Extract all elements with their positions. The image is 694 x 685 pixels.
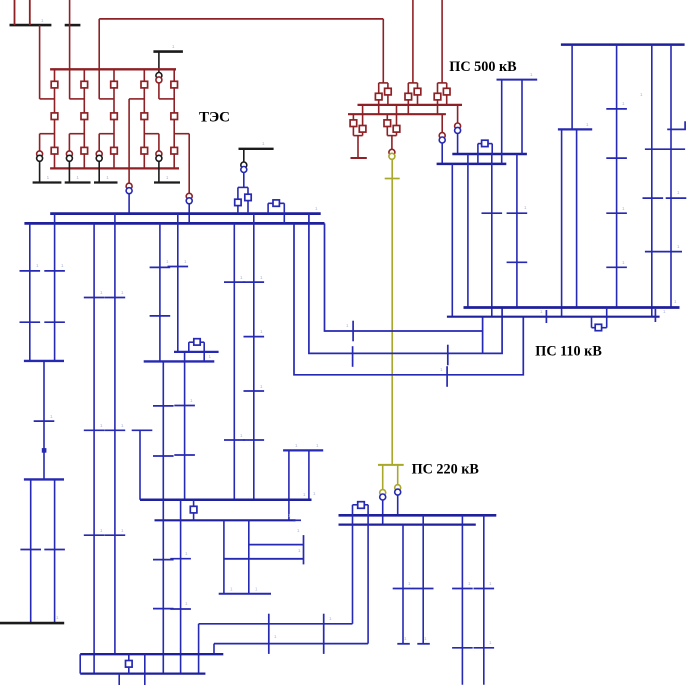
- svg-text:1: 1: [41, 18, 44, 23]
- wire TES chain 3: [113, 69, 115, 168]
- svg-text:1: 1: [100, 290, 103, 295]
- square link Ha-Hb: [193, 500, 195, 521]
- bypass bus1 left leg: [267, 203, 269, 213]
- breaker bypass 500: [482, 140, 488, 146]
- svg-text:1: 1: [76, 175, 79, 180]
- svg-text:1: 1: [260, 329, 263, 334]
- generator bar (black): [154, 181, 180, 183]
- breaker Q1: [51, 81, 58, 88]
- wire line 110 #3: [491, 154, 493, 317]
- wire feeder A2: [54, 214, 56, 361]
- wire Ha corner up: [139, 430, 141, 500]
- transformer T110-2: [186, 193, 192, 204]
- wire 110 col1a: [561, 129, 563, 316]
- wire A middle: [43, 361, 45, 480]
- bypass leg left (busB): [477, 144, 479, 164]
- tick on H2: [545, 310, 547, 323]
- svg-text:1: 1: [255, 587, 258, 592]
- breaker tie right: [245, 194, 251, 200]
- wire elbow upper: [99, 98, 114, 100]
- line terminal bar (red): [351, 157, 367, 159]
- 110kV bus1 (blue): [50, 212, 321, 215]
- bus H_d (blue): [249, 544, 304, 546]
- wire right branch: [387, 83, 389, 105]
- svg-text:1: 1: [586, 122, 589, 127]
- wire tie bar down (black): [243, 149, 245, 162]
- wire feeder C1: [93, 223, 95, 673]
- bypass top bar: [478, 143, 492, 145]
- svg-text:1: 1: [288, 513, 291, 518]
- terminal bar 220 f2: [417, 643, 430, 645]
- wire stub down 2: [521, 80, 523, 154]
- wire transformer to gen bar: [39, 162, 41, 183]
- svg-text:1: 1: [185, 551, 188, 556]
- tick crossing H_h+H_g 2: [323, 614, 325, 654]
- tick A2-1: [44, 270, 65, 272]
- svg-text:1: 1: [674, 299, 677, 304]
- bus H_a (blue): [140, 499, 312, 502]
- tick 220 f1: [393, 588, 414, 590]
- tick E2-2: [174, 454, 195, 456]
- bypass H right leg: [606, 308, 608, 328]
- wire E1 down: [162, 361, 164, 499]
- breaker 500kV low right: [393, 126, 400, 133]
- generator bar (black): [33, 181, 62, 183]
- wire T500/110b to bus (blue): [441, 143, 443, 164]
- wire from G1 bar down: [39, 25, 41, 99]
- svg-text:1: 1: [100, 528, 103, 533]
- wire olive stub right: [397, 465, 399, 485]
- svg-text:1: 1: [121, 290, 124, 295]
- wire TES chain 4: [143, 69, 145, 168]
- svg-text:1: 1: [47, 175, 50, 180]
- transformer (unit): [156, 151, 162, 161]
- wire feeder C2: [114, 214, 116, 655]
- svg-text:1: 1: [524, 205, 527, 210]
- svg-text:1: 1: [190, 398, 193, 403]
- PS220 olive bar: [378, 464, 404, 466]
- transformer T220/110 a: [380, 490, 386, 500]
- breaker Ha-Hb: [190, 506, 197, 513]
- breaker 500kV low left: [350, 120, 357, 127]
- tick col3-1 long: [645, 148, 685, 150]
- svg-text:1: 1: [640, 92, 643, 97]
- svg-text:1: 1: [540, 309, 543, 314]
- wire H_g to H_e: [213, 644, 215, 655]
- wire 110 col3: [651, 45, 653, 317]
- tick on L1 wire: [352, 321, 354, 342]
- tick E2-1: [174, 405, 195, 407]
- wire T500/220 to PS220 (olive): [391, 160, 393, 465]
- tick C2-3: [105, 534, 126, 536]
- svg-text:1: 1: [61, 263, 64, 268]
- svg-text:1: 1: [424, 636, 427, 641]
- generator bar (black): [94, 181, 118, 183]
- terminal bar bottom-left (black): [0, 622, 64, 625]
- island bar (blue): [283, 449, 323, 451]
- breaker Q13: [171, 81, 178, 88]
- wire line 110 #2: [467, 154, 469, 308]
- tick G2-1: [170, 558, 191, 560]
- 110 sub-bus (blue): [558, 128, 592, 130]
- breaker Q8: [111, 113, 118, 120]
- wire T110-1 to bus1 (blue): [128, 194, 130, 214]
- transformer T110-1: [126, 183, 132, 194]
- tick F2-1: [244, 281, 265, 283]
- wire stub down 1: [501, 80, 503, 164]
- wire 500kV drop from TES line: [382, 19, 384, 83]
- wire 220 f4: [483, 515, 485, 685]
- breaker Q7: [111, 81, 118, 88]
- wire to gen transformer: [98, 134, 100, 151]
- bypass220 bar: [353, 504, 369, 506]
- svg-text:1: 1: [50, 414, 53, 419]
- wire chain5 to T110-2 (red): [188, 134, 190, 194]
- svg-text:1: 1: [274, 634, 277, 639]
- svg-text:1: 1: [303, 492, 306, 497]
- svg-text:1: 1: [262, 141, 265, 146]
- breaker Q11: [141, 113, 148, 120]
- wire B right down: [54, 479, 56, 623]
- generator bar G1 (black): [10, 24, 52, 27]
- generator bar (black): [65, 181, 91, 183]
- breaker bypass H: [595, 324, 601, 330]
- wire elbow lower chain4: [144, 133, 159, 135]
- bypass B1 left leg: [188, 342, 190, 352]
- tick crossing Hd+Hc: [303, 535, 305, 564]
- PS500 upper bus (red): [358, 104, 463, 106]
- tick col2-1: [606, 108, 627, 110]
- breaker Q2: [51, 113, 58, 120]
- svg-text:1: 1: [530, 72, 533, 77]
- wire H_h down to H_f: [198, 624, 200, 674]
- wire split bar: [379, 82, 388, 84]
- wire 220 f2: [422, 515, 424, 644]
- svg-text:1: 1: [329, 616, 332, 621]
- tick E1-2: [153, 455, 174, 457]
- wire island leg1: [288, 450, 290, 520]
- wire elbow lower chain5: [174, 133, 189, 135]
- wire transformer to gen bar: [98, 162, 100, 183]
- svg-text:1: 1: [489, 581, 492, 586]
- 110kV bus2 (blue): [24, 222, 324, 225]
- breaker He-Hf: [126, 661, 133, 668]
- wire left branch: [378, 83, 380, 114]
- transformer T5 (gen side): [156, 73, 162, 83]
- bypass leg right (busA): [491, 144, 493, 154]
- wire TES to PS500 horizontal: [99, 18, 383, 20]
- svg-text:1: 1: [295, 443, 298, 448]
- wire F2 down: [253, 214, 255, 500]
- breaker 500kV right: [414, 88, 421, 95]
- wire elbow upper: [129, 98, 144, 100]
- breaker 500kV left: [375, 93, 382, 100]
- wire 110 col4: [670, 45, 672, 308]
- tick col4-2: [666, 197, 687, 199]
- wire feeder up from G1 bar: [14, 0, 16, 25]
- wire B left down: [30, 479, 32, 623]
- junction bar B (blue): [24, 478, 64, 480]
- wire elbow lower: [69, 133, 84, 135]
- breaker Q15: [171, 147, 178, 154]
- tick col2-2: [606, 157, 627, 159]
- tick A mid: [34, 420, 55, 422]
- wire transformer to gen bar: [158, 162, 160, 183]
- svg-text:1: 1: [297, 528, 300, 533]
- wire line 110 #4: [516, 154, 518, 308]
- tie left leg: [237, 187, 239, 213]
- svg-text:1: 1: [209, 354, 212, 359]
- breaker 500kV left: [434, 93, 441, 100]
- tie bar (black): [239, 148, 274, 150]
- svg-text:1: 1: [240, 433, 243, 438]
- tick 220 f4a: [474, 588, 495, 590]
- svg-text:1: 1: [298, 548, 301, 553]
- wire E2 down: [184, 352, 186, 500]
- PS500 110kV bus B (blue): [437, 163, 507, 166]
- 110 loop bus H2 (blue): [447, 316, 660, 318]
- breaker 500kV low left: [384, 120, 391, 127]
- tick col3-3 long: [645, 251, 682, 253]
- wire to gen transformer: [158, 134, 160, 151]
- tick D2-1: [168, 266, 189, 268]
- tick col3-2: [643, 197, 664, 199]
- wire 500kV feeder 2: [441, 0, 443, 83]
- wire join bar low: [353, 135, 362, 137]
- tick D1-1: [150, 266, 171, 268]
- wire col4 elbow tick: [667, 121, 685, 129]
- svg-text:ПС 110 кВ: ПС 110 кВ: [535, 344, 602, 360]
- svg-text:ТЭС: ТЭС: [199, 110, 230, 126]
- svg-text:1: 1: [440, 367, 443, 372]
- wire TES chain 2: [83, 69, 85, 168]
- svg-text:1: 1: [315, 206, 318, 211]
- wire G3 bar to transformer: [158, 52, 160, 73]
- svg-text:ПС 500 кВ: ПС 500 кВ: [449, 59, 517, 75]
- 110 loop bus H1 (blue): [464, 306, 680, 309]
- transformer (unit): [96, 151, 102, 161]
- tick L2 a: [352, 346, 354, 367]
- wire to T220 (red): [391, 136, 393, 150]
- tick L3 a: [446, 366, 448, 387]
- tick col2-3: [606, 212, 627, 214]
- tick 220 f4b: [474, 647, 495, 649]
- wire 110 col1: [571, 45, 573, 130]
- terminal bar Hc (blue): [219, 593, 271, 595]
- tick 220 f3a: [452, 588, 473, 590]
- transformer T500/110a: [455, 123, 461, 133]
- tick A1-1: [20, 270, 41, 272]
- breaker Q14: [171, 113, 178, 120]
- tick F2-3: [244, 390, 265, 392]
- junction bar A (blue): [24, 360, 64, 362]
- terminal bar 220 f1: [397, 643, 410, 645]
- bypass220 left leg: [352, 505, 354, 624]
- tick col2-4: [606, 266, 627, 268]
- stub bus (blue): [497, 79, 538, 81]
- tick C1-2: [84, 429, 105, 431]
- transformer (unit): [66, 151, 72, 161]
- tick F1-1: [224, 281, 245, 283]
- breaker Q9: [111, 147, 118, 154]
- tie split bar: [238, 186, 248, 188]
- tick C1-1: [84, 297, 105, 299]
- wire Hb down right: [248, 520, 250, 593]
- sub bus B2 (blue): [144, 360, 215, 362]
- wire He-Hf left link: [79, 654, 81, 673]
- tick line4 b: [507, 261, 528, 263]
- wire 220 f3: [461, 515, 463, 685]
- bypass B1 right leg: [203, 342, 205, 361]
- tick G1-2: [153, 608, 174, 610]
- wire left branch low: [352, 114, 354, 135]
- tick A1-2: [20, 321, 41, 323]
- wire 500kV feeder 1: [412, 0, 414, 83]
- svg-text:1: 1: [408, 581, 411, 586]
- transformer (unit): [37, 151, 43, 161]
- tick D1-2: [150, 315, 171, 317]
- tick C2-1: [105, 297, 126, 299]
- tick E1-1: [153, 405, 174, 407]
- tick L2 b: [447, 345, 449, 366]
- tick 220 f3b: [452, 647, 473, 649]
- transformer T220/110 b: [395, 485, 401, 495]
- breaker bypass B1: [194, 339, 200, 345]
- wire 220 f1: [402, 525, 404, 644]
- breaker Q12: [141, 147, 148, 154]
- svg-text:ПС 220 кВ: ПС 220 кВ: [412, 461, 480, 477]
- tick on H2 end: [654, 309, 656, 322]
- wire join bar low: [387, 135, 396, 137]
- svg-text:1: 1: [677, 190, 680, 195]
- square link He-Hf: [128, 654, 130, 673]
- wire upper bus to T500/110a: [457, 105, 459, 123]
- breaker Q5: [81, 113, 88, 120]
- wire island leg2: [308, 450, 310, 499]
- breaker bypass bus1: [273, 200, 279, 206]
- svg-text:1: 1: [240, 275, 243, 280]
- bypass220 right leg: [367, 505, 369, 644]
- svg-text:1: 1: [260, 384, 263, 389]
- bus H_e (blue): [80, 653, 223, 655]
- svg-text:1: 1: [468, 581, 471, 586]
- wire T500/110a to bus (blue): [457, 134, 459, 154]
- wire TES to PS500 vertical drop: [98, 19, 100, 99]
- transformer tie: [241, 162, 247, 173]
- wire T110-2 to bus2 (blue): [188, 204, 190, 223]
- tick G1-1: [153, 559, 174, 561]
- wire 110 col2: [616, 45, 618, 308]
- tick B right: [44, 549, 65, 551]
- wire below Hf stub1: [118, 674, 120, 685]
- tick F2-4: [244, 439, 265, 441]
- wire F1 down: [233, 223, 235, 499]
- tick Hb end: [293, 519, 301, 521]
- wire Hb down left: [223, 520, 225, 593]
- wire to gen transformer: [39, 134, 41, 151]
- wire T220b to bus (blue): [397, 495, 399, 515]
- wire right branch: [417, 83, 419, 105]
- wire elbow upper: [159, 98, 174, 100]
- breaker Q10: [141, 81, 148, 88]
- TES lower bus (red): [50, 167, 179, 169]
- svg-text:1: 1: [346, 323, 349, 328]
- PS500 110kV bus A (blue): [452, 153, 527, 156]
- tick A2-2: [44, 321, 65, 323]
- bus H_c (blue): [224, 558, 304, 560]
- bypass bus1 right leg: [283, 203, 285, 223]
- 220kV bus 2 (blue): [339, 523, 476, 525]
- svg-text:1: 1: [36, 263, 39, 268]
- tick F1-2: [224, 439, 245, 441]
- svg-text:1: 1: [663, 309, 666, 314]
- wire 110 col1b: [576, 129, 578, 307]
- bypass H left leg: [591, 317, 593, 328]
- wire TES chain 5: [173, 69, 175, 168]
- node junction dot: [42, 448, 47, 453]
- tick F2-2: [244, 336, 265, 338]
- svg-text:1: 1: [677, 244, 680, 249]
- wire to gen transformer: [68, 134, 70, 151]
- svg-text:1: 1: [121, 528, 124, 533]
- bypass B1 bar: [189, 341, 204, 343]
- svg-text:1: 1: [121, 423, 124, 428]
- breaker Q4: [81, 81, 88, 88]
- wire T220a to bus (blue): [382, 500, 384, 524]
- breaker tie left: [235, 199, 241, 205]
- transformer T500/220: [389, 149, 395, 159]
- wire elbow lower: [99, 133, 114, 135]
- wire right branch: [446, 83, 448, 105]
- wire tie to split (blue): [243, 173, 245, 188]
- wire elbow upper: [40, 98, 55, 100]
- wire loop L1 riser: [482, 317, 484, 354]
- bus H_b (blue): [155, 519, 296, 521]
- wire right branch low: [396, 105, 398, 136]
- breaker bypass220: [358, 502, 365, 509]
- transformer T500/110b: [439, 133, 445, 143]
- 220kV bus 1 (blue): [339, 514, 497, 517]
- tick line4 a: [507, 212, 528, 214]
- svg-text:1: 1: [172, 44, 175, 49]
- tick C1-3: [84, 534, 105, 536]
- wire transformer T5 to elbow: [158, 83, 160, 99]
- wire feeder through G2 bar: [69, 0, 71, 99]
- wire feeder up 2 from G1 bar: [29, 0, 31, 25]
- wire loop L1: [325, 223, 483, 331]
- svg-text:1: 1: [622, 206, 625, 211]
- wire feeder D2: [177, 214, 179, 352]
- breaker 500kV low right: [359, 126, 366, 133]
- generator bar G2 (black): [65, 24, 81, 27]
- tick 220 f2: [413, 588, 434, 590]
- sub bus B1 (blue): [174, 351, 219, 353]
- tick C2-2: [105, 429, 126, 431]
- breaker 500kV left: [405, 93, 412, 100]
- svg-text:1: 1: [404, 636, 407, 641]
- svg-text:1: 1: [166, 259, 169, 264]
- wire loop L2: [309, 214, 502, 354]
- tie right leg: [247, 187, 249, 213]
- tick line3: [482, 212, 503, 214]
- wire split bar: [408, 82, 417, 84]
- tick crossing H_h+H_g 1: [268, 614, 270, 654]
- 110 top bus (blue): [561, 43, 685, 46]
- wire elbow lower: [40, 133, 55, 135]
- svg-text:1: 1: [313, 491, 316, 496]
- wire feeder D1: [159, 223, 161, 361]
- svg-text:1: 1: [184, 259, 187, 264]
